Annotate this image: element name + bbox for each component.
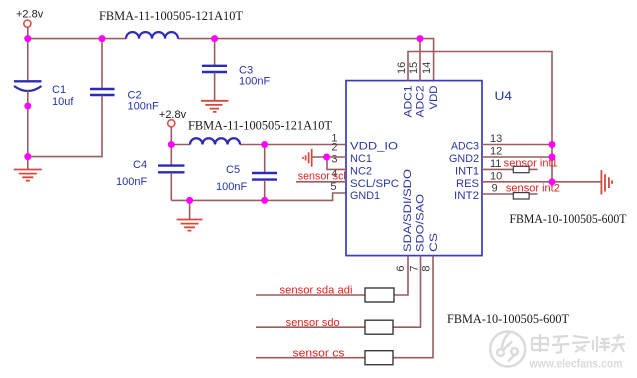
svg-text:C5: C5: [226, 164, 240, 176]
watermark chinese characters: [532, 334, 625, 353]
wire: C5 bottom stub: [264, 180, 266, 200]
wire: pin 3 NC2 up to NC1 net: [327, 157, 346, 169]
svg-text:2: 2: [331, 142, 337, 154]
svg-text:FBMA-11-100505-121A10T: FBMA-11-100505-121A10T: [188, 117, 332, 132]
svg-text:sensor cs: sensor cs: [293, 348, 346, 360]
capacitor C5: [252, 173, 277, 180]
svg-text:7: 7: [409, 266, 421, 272]
svg-text:SDA/SDI/SDO: SDA/SDI/SDO: [402, 168, 414, 252]
wire: C1 top stub: [27, 39, 29, 81]
svg-text:CS: CS: [428, 233, 440, 252]
wire: pin 10 RES to ground: [482, 181, 601, 183]
svg-text:SDO/SAO: SDO/SAO: [415, 193, 427, 252]
capacitor C3: [202, 66, 227, 72]
wire: pin 12 GND2: [482, 156, 552, 158]
wire: pin 2 NC1 to ground: [312, 156, 346, 158]
svg-text:13: 13: [490, 133, 502, 145]
wire: bottom rail C1-C2: [28, 96, 102, 157]
svg-text:10: 10: [490, 170, 502, 182]
capacitor C1 (polarized): [14, 80, 42, 82]
wire: second rail to pin 1: [171, 144, 346, 146]
svg-text:INT2: INT2: [454, 190, 479, 202]
wire: pin 9 INT2: [482, 193, 538, 195]
ground G1: [14, 170, 42, 181]
resistor on INT2: [513, 193, 529, 199]
svg-text:11: 11: [490, 158, 501, 170]
wire: pin 7 SDO row: [256, 256, 421, 328]
wire: second bottom rail to pin 5: [171, 193, 346, 200]
svg-text:100nF: 100nF: [216, 181, 247, 193]
svg-text:ADC1: ADC1: [403, 86, 415, 118]
svg-text:FBMA-10-100505-600T: FBMA-10-100505-600T: [510, 212, 627, 226]
wire: ground stem G1: [27, 157, 29, 170]
wire: C4 bottom to rail: [170, 173, 172, 201]
power port circle P1: [24, 20, 31, 27]
svg-text:SCL/SPC: SCL/SPC: [350, 178, 399, 190]
svg-text:+2.8v: +2.8v: [16, 9, 44, 21]
svg-text:FBMA-10-100505-600T: FBMA-10-100505-600T: [447, 312, 569, 326]
svg-text:6: 6: [395, 266, 407, 272]
wire: P2 stem: [170, 127, 172, 145]
svg-text:100nF: 100nF: [239, 75, 270, 87]
svg-text:3: 3: [331, 153, 337, 165]
svg-text:10uf: 10uf: [52, 96, 74, 108]
svg-text:12: 12: [490, 146, 502, 158]
wire: pin 13 ADC3: [482, 144, 552, 146]
wire: C5 top stub: [264, 145, 266, 173]
svg-text:sensor scl: sensor scl: [298, 171, 346, 183]
ground G3: [177, 220, 203, 231]
svg-text:NC2: NC2: [350, 165, 372, 177]
wire: P1 stem: [27, 27, 29, 38]
svg-text:15: 15: [408, 62, 420, 74]
svg-text:ADC2: ADC2: [415, 86, 427, 118]
resistor on cs row: [365, 351, 393, 365]
svg-text:sensor sdo: sensor sdo: [286, 317, 340, 329]
svg-text:ADC3: ADC3: [451, 141, 479, 153]
svg-text:RES: RES: [456, 178, 479, 190]
wire: pin 6 SDA row: [256, 256, 408, 295]
svg-text:100nF: 100nF: [116, 176, 147, 188]
svg-text:U4: U4: [495, 89, 513, 103]
sideways ground G5 right: [601, 170, 612, 194]
wire: C3 top stub: [214, 39, 216, 66]
svg-text:9: 9: [492, 183, 498, 195]
inductor L1: [126, 32, 178, 39]
junction dot NC1/NC2: [323, 154, 330, 161]
svg-text:GND1: GND1: [350, 190, 380, 202]
wire: pin 8 CS row: [256, 256, 433, 358]
svg-text:INT1: INT1: [455, 165, 479, 177]
wire: ADC2 stub: [419, 39, 421, 81]
svg-text:NC1: NC1: [350, 153, 372, 165]
wire: pin 4 SCL/SPC: [296, 181, 346, 183]
svg-text:VDD: VDD: [428, 85, 440, 109]
power port circle P2: [168, 120, 175, 127]
resistor on INT1: [513, 166, 529, 172]
wire: ground stem G3: [189, 200, 191, 219]
ground G2: [201, 101, 229, 112]
inductor L2: [190, 138, 240, 144]
svg-text:sensor sda adi: sensor sda adi: [280, 285, 353, 297]
sideways ground G4 near pin2: [303, 149, 312, 167]
svg-text:C4: C4: [133, 159, 147, 171]
svg-text:GND2: GND2: [449, 153, 479, 165]
wire: C1 bottom: [27, 91, 29, 157]
wire: C4 top stub: [170, 145, 172, 166]
svg-text:www.elecfans.com: www.elecfans.com: [529, 357, 623, 371]
svg-text:+2.8v: +2.8v: [159, 109, 187, 121]
wire: C2 top stub: [101, 39, 103, 89]
wire: ADC1 net to right ground bus: [408, 52, 552, 182]
svg-text:100nF: 100nF: [128, 101, 159, 113]
wire: C3 bottom stem: [214, 73, 216, 101]
svg-text:FBMA-11-100505-121A10T: FBMA-11-100505-121A10T: [99, 8, 243, 23]
resistor on sdo row: [365, 320, 393, 334]
wire: pin 11 INT1: [482, 168, 538, 170]
IC U4 body: [346, 81, 482, 256]
watermark logo circle: [490, 332, 525, 367]
junction dots: [24, 35, 31, 42]
svg-text:8: 8: [421, 266, 433, 272]
resistor on sda row: [365, 288, 394, 302]
junction dot below C1: [24, 103, 31, 110]
capacitor C2: [90, 89, 115, 95]
wire: +2.8v top rail: [28, 39, 434, 81]
svg-text:16: 16: [396, 62, 408, 74]
capacitor C4: [158, 166, 185, 173]
svg-text:14: 14: [421, 62, 433, 74]
svg-text:C1: C1: [52, 84, 66, 96]
svg-text:VDD_IO: VDD_IO: [350, 141, 399, 153]
